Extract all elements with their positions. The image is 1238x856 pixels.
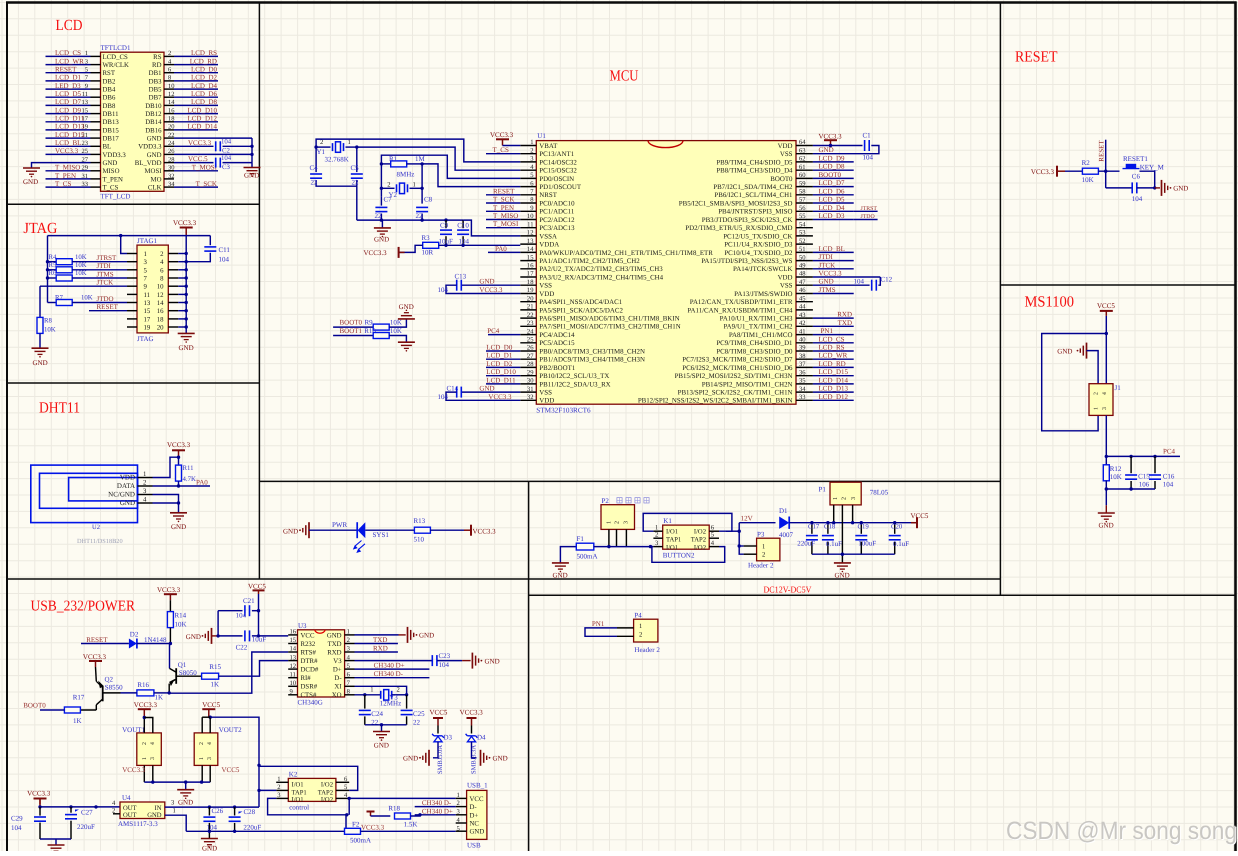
net CH340 D+ wire (355, 668, 430, 670)
wire RTS row to Q1 node (169, 652, 288, 693)
svg-text:C19: C19 (858, 524, 870, 531)
switch K1 BUTTON2 body (663, 525, 710, 549)
svg-text:4: 4 (1102, 392, 1108, 395)
capacitor C14 104 pins31/32 (462, 391, 521, 393)
svg-text:1: 1 (639, 623, 642, 630)
connector P2 power socket body (601, 505, 635, 530)
wire VDD pin1 to VCC3.3 (153, 457, 179, 477)
net BOOT0 resistor R9 10K (333, 326, 373, 328)
svg-text:PC14/OSC32: PC14/OSC32 (539, 159, 577, 166)
svg-text:PC1/ADC11: PC1/ADC11 (539, 209, 575, 216)
transistor Q1 S8050 (169, 644, 171, 669)
svg-text:VSSA: VSSA (539, 233, 557, 240)
svg-text:GND: GND (819, 146, 834, 154)
svg-text:PC6/I2S2_MCK/TIM8_CH1/SDIO_D6: PC6/I2S2_MCK/TIM8_CH1/SDIO_D6 (682, 365, 793, 372)
svg-text:JTMS: JTMS (97, 270, 114, 278)
svg-text:1: 1 (348, 139, 351, 146)
capacitor C10 104 (462, 220, 464, 228)
svg-text:LCD_RD: LCD_RD (190, 57, 217, 65)
wire left loop from VCC node (1042, 334, 1107, 431)
svg-text:PD0/OSCIN: PD0/OSCIN (539, 176, 574, 183)
power port VCC5 output (916, 517, 918, 528)
JTAG1 pins 13/14 row (127, 302, 137, 304)
svg-text:C26: C26 (212, 807, 224, 815)
svg-text:Header 2: Header 2 (634, 646, 660, 654)
svg-text:220uF: 220uF (797, 540, 815, 548)
svg-text:R232: R232 (301, 641, 316, 648)
svg-text:PN1: PN1 (592, 620, 605, 628)
svg-text:LCD_D6: LCD_D6 (191, 90, 218, 98)
svg-text:104: 104 (863, 154, 874, 162)
svg-text:VDD: VDD (539, 398, 554, 405)
svg-text:DHT11/DS18B20: DHT11/DS18B20 (77, 538, 123, 545)
svg-text:DC12V-DC5V: DC12V-DC5V (764, 585, 812, 595)
svg-text:LCD_BL: LCD_BL (55, 139, 81, 147)
svg-text:R16: R16 (137, 681, 149, 689)
wire net LCD_D1 (486, 358, 520, 360)
svg-text:VCC5: VCC5 (248, 582, 266, 590)
svg-text:DB10: DB10 (145, 103, 162, 110)
svg-text:13: 13 (144, 300, 151, 307)
svg-text:VDD: VDD (778, 143, 793, 150)
svg-text:DATA: DATA (117, 482, 135, 490)
svg-text:PA0: PA0 (495, 245, 507, 253)
power port VCC3.3 right of R13 (470, 525, 472, 536)
capacitor C17 220uF (811, 523, 813, 534)
svg-text:I/O2: I/O2 (694, 544, 706, 551)
capacitor C3 104 on pin28 row (174, 162, 214, 164)
svg-text:C23: C23 (439, 652, 451, 660)
svg-text:C20: C20 (891, 524, 903, 531)
wire K1 pin1 loop to pin6 (643, 513, 732, 531)
K1 pin 5 stub (709, 537, 719, 539)
svg-text:104: 104 (854, 278, 865, 286)
ground inverted above R9 (398, 318, 415, 320)
wire RESET row (89, 310, 127, 312)
svg-text:1: 1 (413, 181, 416, 188)
svg-text:LCD_D7: LCD_D7 (819, 179, 846, 187)
P1 pins (833, 505, 835, 523)
svg-text:GND: GND (147, 152, 162, 159)
svg-text:PB12/SPI2_NSS/I2S2_WS/I2C2_SMB: PB12/SPI2_NSS/I2S2_WS/I2C2_SMBAI/TIM1_BK… (638, 398, 793, 405)
TFTLCD1 pin 6 row (164, 72, 174, 74)
svg-text:2: 2 (347, 637, 350, 644)
svg-text:1K: 1K (211, 681, 220, 689)
wire JTAG top rail (48, 235, 211, 237)
resistor R8 10K pulldown (39, 286, 41, 317)
JTAG1 pins 19/20 row (127, 326, 137, 328)
TFTLCD1 pin 34 row (164, 186, 174, 188)
ground port RESET (1155, 187, 1160, 189)
ground under F1 (552, 562, 569, 564)
svg-text:CH340G: CH340G (298, 699, 323, 707)
capacitor C16 104 (1154, 456, 1156, 473)
svg-text:TFT_LCD: TFT_LCD (101, 193, 131, 201)
K1 pin 3 stub (653, 546, 662, 548)
wire Y1 pin1 to PC15 (pin4) (357, 147, 521, 170)
svg-text:58: 58 (799, 189, 806, 196)
svg-text:10K: 10K (44, 326, 56, 333)
svg-text:LCD_D14: LCD_D14 (187, 123, 217, 131)
svg-text:GND: GND (403, 755, 418, 763)
chip U3 CH340G body (298, 630, 345, 697)
svg-text:GND: GND (23, 178, 38, 186)
svg-text:48: 48 (799, 271, 806, 278)
svg-text:VCC3.3: VCC3.3 (361, 824, 385, 832)
svg-text:USB: USB (467, 842, 481, 850)
crystal Y1 32.768K (316, 146, 330, 148)
TFTLCD1 pin 29 row (91, 170, 101, 172)
TFTLCD1 pin 3 row (91, 64, 101, 66)
svg-text:VCC3.3: VCC3.3 (173, 219, 197, 227)
svg-text:DB8: DB8 (103, 103, 116, 110)
svg-text:BL: BL (103, 144, 112, 151)
JTAG1 pins 15/16 row (127, 310, 137, 312)
svg-text:T_CS: T_CS (493, 146, 509, 154)
svg-text:21: 21 (527, 304, 534, 311)
ground right of LCD caps (244, 167, 261, 169)
wire pin26 row (174, 153, 252, 155)
svg-text:VBAT: VBAT (539, 143, 558, 150)
svg-text:VDD: VDD (539, 291, 554, 298)
svg-text:2: 2 (199, 742, 205, 745)
svg-text:12MHz: 12MHz (380, 700, 401, 708)
resistor R16 1K (137, 690, 154, 696)
svg-text:T_PEN: T_PEN (55, 172, 76, 180)
svg-text:C29: C29 (11, 815, 23, 823)
svg-text:LCD_D11: LCD_D11 (55, 115, 85, 123)
wire net PN1 (813, 334, 854, 336)
U3 pin 2 stub (345, 643, 355, 645)
wire net LCD_D15 (813, 375, 854, 377)
svg-text:LCD_D10: LCD_D10 (187, 106, 217, 114)
svg-text:VCC3.3: VCC3.3 (55, 147, 79, 155)
svg-text:S8050: S8050 (179, 669, 197, 677)
svg-text:20: 20 (527, 295, 534, 302)
wire net PA0 pin14 (488, 251, 520, 253)
P2 pins down to wire (608, 529, 610, 546)
svg-text:OUT: OUT (123, 812, 137, 819)
TFTLCD1 pin 28 row (164, 162, 174, 164)
svg-text:LCD_D2: LCD_D2 (486, 360, 513, 368)
svg-text:XO: XO (332, 692, 342, 699)
svg-text:104: 104 (236, 612, 247, 620)
svg-text:1: 1 (607, 521, 613, 524)
svg-text:LCD_D8: LCD_D8 (819, 163, 846, 171)
svg-text:13: 13 (290, 654, 297, 661)
svg-text:10K: 10K (75, 262, 87, 269)
svg-text:R11: R11 (183, 465, 194, 472)
capacitor C1 104 pin64 to pin63 (813, 145, 863, 147)
svg-text:1: 1 (347, 629, 350, 636)
wire C29 C27 gnd link (40, 838, 71, 840)
svg-text:1: 1 (457, 792, 460, 799)
svg-text:C16: C16 (1163, 473, 1175, 481)
svg-text:51: 51 (799, 246, 806, 253)
svg-text:PC4: PC4 (1163, 448, 1176, 456)
svg-text:R2: R2 (1082, 159, 1091, 167)
svg-text:TAP1: TAP1 (292, 789, 307, 796)
svg-text:DB17: DB17 (103, 136, 120, 143)
svg-text:28: 28 (527, 361, 534, 368)
TFTLCD1 pin 21 row (91, 137, 101, 139)
svg-text:33: 33 (799, 394, 806, 401)
resistor R17 1K and BOOT0 (95, 705, 97, 710)
svg-text:D+: D+ (333, 667, 342, 674)
svg-text:DB16: DB16 (145, 127, 162, 134)
USB_1 pin 5 stub (456, 830, 467, 832)
svg-text:LCD_D3: LCD_D3 (819, 212, 846, 220)
svg-text:VCC3.3: VCC3.3 (473, 528, 497, 536)
svg-text:GND: GND (399, 303, 414, 311)
wire net JTDI (813, 260, 854, 262)
wire net LCD_D12 (813, 399, 854, 401)
svg-text:J1: J1 (1115, 384, 1122, 392)
svg-text:D-: D- (334, 675, 342, 682)
U3 pin 15 stub (288, 643, 297, 645)
svg-text:LCD_D7: LCD_D7 (55, 98, 82, 106)
svg-text:104: 104 (219, 256, 230, 264)
TFTLCD1 pin 4 row (164, 64, 174, 66)
svg-text:45: 45 (799, 295, 806, 302)
svg-text:GND: GND (244, 172, 259, 180)
TFTLCD1 pin 25 row (91, 153, 101, 155)
svg-text:BOOT0: BOOT0 (770, 176, 793, 183)
K2 pin 1 stub (276, 781, 288, 783)
wire pin3 pin4 to ground (153, 495, 179, 504)
wire pin27 to GND (32, 163, 91, 168)
TFTLCD1 pin 33 row (91, 186, 101, 188)
svg-text:TAP2: TAP2 (691, 537, 706, 544)
svg-text:2: 2 (397, 686, 400, 693)
svg-text:60: 60 (799, 172, 806, 179)
svg-text:C11: C11 (219, 246, 231, 254)
svg-text:LCD_D10: LCD_D10 (486, 368, 516, 376)
svg-text:1: 1 (199, 757, 205, 760)
svg-text:PB5/I2C1_SMBA/SPI3_MOSI/I2S3_S: PB5/I2C1_SMBA/SPI3_MOSI/I2S3_SD (679, 200, 793, 207)
svg-text:JTAG: JTAG (137, 335, 154, 343)
svg-text:VDD3.3: VDD3.3 (103, 152, 127, 159)
K1 pin 4 stub (709, 546, 719, 548)
svg-text:104: 104 (11, 824, 22, 832)
svg-text:DB12: DB12 (145, 111, 162, 118)
svg-text:2: 2 (639, 632, 642, 639)
svg-text:P1: P1 (819, 485, 827, 493)
svg-text:54: 54 (799, 221, 806, 228)
TFTLCD1 pin 16 row (164, 113, 174, 115)
svg-text:1: 1 (143, 471, 146, 478)
U3 pin 5 stub (345, 668, 355, 670)
capacitor C25 22 (406, 695, 408, 709)
svg-text:1: 1 (144, 251, 147, 258)
svg-text:I/O1: I/O1 (666, 528, 678, 535)
svg-text:PA15/JTDI/SPI3_NSS/I2S3_WS: PA15/JTDI/SPI3_NSS/I2S3_WS (701, 258, 792, 265)
svg-text:C9: C9 (440, 221, 449, 229)
svg-text:PB3/JTDO/SPI3_SCK/I2S3_CK: PB3/JTDO/SPI3_SCK/I2S3_CK (702, 217, 793, 224)
svg-text:2: 2 (320, 139, 323, 146)
svg-text:VCC3.3: VCC3.3 (122, 766, 146, 774)
diode D1 4007 (779, 517, 789, 529)
resistor R1 1M (381, 163, 390, 165)
svg-text:39: 39 (799, 345, 806, 352)
wire Y1 pin2 to PC14 (pin3) (316, 139, 520, 162)
svg-text:CLK: CLK (148, 185, 162, 192)
svg-text:GND: GND (171, 523, 186, 531)
svg-text:13: 13 (527, 238, 534, 245)
JTAG1 pins 11/12 row (127, 293, 137, 295)
svg-text:PB6/I2C1_SCL/TIM4_CH1: PB6/I2C1_SCL/TIM4_CH1 (714, 192, 793, 199)
capacitor C18 0.1uF (827, 523, 829, 534)
VOUT2 top pins and VCC5 rail wire (201, 717, 203, 733)
svg-text:R17: R17 (73, 694, 85, 702)
svg-text:LCD_D15: LCD_D15 (819, 368, 849, 376)
wire P1 gnd pin down (841, 523, 843, 563)
ground crystal rail (381, 220, 383, 228)
svg-text:I/O1: I/O1 (292, 781, 304, 788)
svg-text:R5: R5 (49, 262, 58, 269)
svg-text:C18: C18 (824, 524, 836, 531)
svg-text:19: 19 (144, 325, 151, 332)
svg-text:LCD_D8: LCD_D8 (191, 98, 218, 106)
svg-text:XI: XI (334, 684, 342, 691)
svg-text:29: 29 (527, 369, 534, 376)
svg-text:14: 14 (157, 300, 164, 307)
svg-text:GND: GND (186, 633, 201, 641)
JTAG1 pins 9/10 row (127, 285, 137, 287)
svg-text:GND: GND (819, 278, 834, 286)
J1 bottom right pin down to PC4 node (1105, 415, 1107, 456)
svg-text:CH340 D+: CH340 D+ (422, 807, 453, 815)
svg-text:104: 104 (438, 393, 449, 401)
svg-text:14: 14 (290, 646, 297, 653)
U4 pin1 GND down to rail (165, 815, 186, 831)
svg-text:22: 22 (168, 132, 175, 139)
svg-text:1.5K: 1.5K (404, 821, 418, 829)
U1 pin stubs and names (520, 145, 536, 147)
svg-text:R4: R4 (49, 254, 58, 261)
svg-text:78L05: 78L05 (870, 488, 889, 496)
svg-text:18: 18 (527, 279, 534, 286)
svg-text:3: 3 (624, 521, 630, 524)
svg-text:VOUT1: VOUT1 (122, 726, 145, 734)
svg-text:0.1uF: 0.1uF (826, 540, 842, 548)
capacitor C20 0.1uF (894, 523, 896, 534)
sensor J1 body (1089, 384, 1113, 416)
svg-text:TXD: TXD (838, 319, 852, 327)
svg-text:22: 22 (352, 179, 360, 187)
svg-text:RI#: RI# (301, 675, 312, 682)
TFTLCD1 pin 27 row (91, 162, 101, 164)
wire down to ground (1105, 489, 1107, 505)
JTAG1 pins 5/6 row (127, 269, 137, 271)
svg-text:1: 1 (142, 757, 148, 760)
ground below R10 (398, 341, 415, 343)
svg-text:25: 25 (527, 337, 534, 344)
ground port right of D4 (480, 750, 482, 766)
svg-text:23: 23 (527, 320, 534, 327)
svg-text:PC3/ADC13: PC3/ADC13 (539, 225, 575, 232)
svg-text:R14: R14 (175, 612, 187, 620)
USB_1 pin 4 stub (456, 822, 467, 824)
svg-text:DB11: DB11 (103, 111, 119, 118)
svg-text:VCC5: VCC5 (222, 766, 240, 774)
wire net LCD_D10 (486, 375, 520, 377)
svg-text:R12: R12 (1110, 465, 1122, 473)
capacitor C5 22 (356, 147, 358, 172)
svg-text:11: 11 (527, 221, 533, 228)
connector JTAG1 body (137, 245, 168, 333)
VOUT1 top pins (143, 718, 145, 733)
svg-text:PC13/ANT1: PC13/ANT1 (539, 151, 574, 158)
K1 pin 6 stub (709, 530, 719, 532)
svg-text:26: 26 (527, 345, 534, 352)
svg-text:8: 8 (160, 276, 164, 283)
svg-text:R9: R9 (365, 318, 374, 326)
LED SYS1 (356, 522, 358, 538)
svg-text:P4: P4 (634, 611, 642, 619)
TFTLCD1 pin 2 row (164, 55, 174, 57)
svg-text:PA12/CAN_TX/USBDP/TIM1_ETR: PA12/CAN_TX/USBDP/TIM1_ETR (690, 299, 793, 306)
svg-text:2: 2 (457, 800, 460, 807)
svg-text:34: 34 (799, 386, 806, 393)
svg-text:AMS1117-3.3: AMS1117-3.3 (118, 820, 158, 828)
svg-text:2: 2 (530, 147, 533, 154)
svg-text:DB2: DB2 (103, 78, 116, 85)
svg-text:510: 510 (414, 536, 425, 544)
svg-text:D4: D4 (477, 734, 486, 742)
svg-text:59: 59 (799, 180, 806, 187)
net RXD wire (355, 651, 398, 653)
resistor R2 10K (1065, 170, 1083, 172)
svg-text:2: 2 (655, 532, 658, 539)
wire net LCD_D0 (486, 350, 520, 352)
svg-text:16: 16 (290, 629, 297, 636)
svg-text:JTAG1: JTAG1 (137, 237, 158, 245)
net CH340 D- wire (355, 677, 430, 679)
svg-text:VCC5: VCC5 (911, 512, 929, 520)
svg-text:MOSI: MOSI (145, 168, 163, 175)
svg-text:32.768K: 32.768K (325, 155, 349, 163)
svg-text:61: 61 (799, 164, 806, 171)
svg-text:PA3/U2_RX/ADC3/TIM2_CH4/TIM5_C: PA3/U2_RX/ADC3/TIM2_CH4/TIM5_CH4 (539, 274, 663, 281)
svg-text:1: 1 (1094, 407, 1100, 410)
svg-text:DB6: DB6 (103, 95, 116, 102)
svg-text:5: 5 (144, 267, 148, 274)
svg-text:PA4/SPI1_NSS/ADC4/DAC1: PA4/SPI1_NSS/ADC4/DAC1 (539, 299, 622, 306)
connector TFTLCD1 body (101, 52, 165, 191)
svg-text:C28: C28 (244, 808, 256, 816)
wire net LCD_RS (813, 350, 854, 352)
svg-text:GND: GND (553, 572, 568, 580)
svg-text:R1: R1 (389, 155, 398, 163)
wire net PC4 pin24 (488, 334, 520, 336)
svg-text:T_SCK: T_SCK (196, 180, 217, 188)
svg-text:38: 38 (799, 353, 806, 360)
svg-text:GND: GND (33, 359, 48, 367)
svg-text:1N4148: 1N4148 (144, 636, 167, 644)
svg-text:4: 4 (207, 742, 213, 745)
svg-text:K2: K2 (289, 771, 298, 779)
svg-text:GND: GND (178, 799, 193, 807)
svg-text:PB10/I2C2_SCL/U3_TX: PB10/I2C2_SCL/U3_TX (539, 373, 609, 380)
svg-text:2: 2 (277, 784, 280, 791)
wire crystal ground rail (365, 724, 407, 726)
USB_1 pin 3 stub (456, 814, 467, 816)
TFTLCD1 pin 17 row (91, 121, 101, 123)
svg-text:JTDO: JTDO (97, 295, 114, 303)
svg-text:2: 2 (143, 480, 147, 487)
svg-text:C4: C4 (310, 164, 319, 172)
